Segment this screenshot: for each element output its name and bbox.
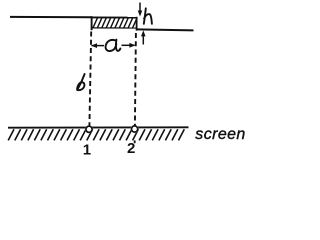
- arrow: up arrow below lower line (h dimension): [141, 30, 146, 44]
- node screen hatching: [8, 129, 184, 140]
- node slit image 1 circle: [86, 126, 92, 132]
- svg-text:screen: screen: [195, 126, 245, 143]
- wire: lower-right surface line: [137, 29, 194, 30]
- node white halo around slit image 1: [85, 125, 93, 133]
- arrow: down arrow above step (h dimension): [138, 3, 143, 17]
- wire: left dashed vertical line: [89, 32, 91, 127]
- label b: [77, 74, 85, 90]
- wire: upper-left surface line: [10, 16, 92, 18]
- wire: right dashed vertical line: [135, 33, 136, 126]
- node slit image 2 circle: [132, 126, 138, 132]
- label h: [144, 8, 152, 23]
- arrow: a dimension right arrowhead: [122, 43, 136, 48]
- wire: stray dash below circle 2: [134, 140, 136, 143]
- node white halo around slit image 2: [131, 125, 139, 133]
- svg-text:2: 2: [127, 140, 135, 157]
- wire: step left vertical edge: [91, 16, 93, 30]
- wire: screen top line: [8, 126, 189, 128]
- node block: raised hatched step: [92, 17, 138, 31]
- label a: [106, 40, 121, 51]
- svg-text:1: 1: [83, 142, 91, 158]
- arrow: a dimension left arrowhead: [91, 43, 104, 48]
